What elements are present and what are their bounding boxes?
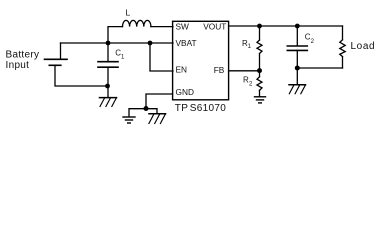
node EN junction <box>148 41 153 46</box>
wire VOUT rail <box>229 25 343 27</box>
svg-text:L: L <box>126 7 131 17</box>
svg-text:1: 1 <box>121 54 125 60</box>
IC U1 TPS61070 box <box>173 21 229 100</box>
svg-text:VOUT: VOUT <box>203 22 226 32</box>
wire FB <box>229 70 260 72</box>
node R1 top junction <box>257 24 262 29</box>
wire SW top rail left <box>108 27 123 43</box>
svg-text:FB: FB <box>214 65 225 75</box>
capacitor C2 <box>287 26 307 84</box>
svg-text:Battery: Battery <box>6 50 40 61</box>
wire EN connection <box>150 43 173 71</box>
svg-text:VBAT: VBAT <box>176 38 197 48</box>
node GND junction <box>144 106 149 111</box>
svg-text:GND: GND <box>176 87 194 97</box>
wire load bottom <box>297 67 342 69</box>
wire GND connection <box>146 94 173 109</box>
svg-text:TPS61070: TPS61070 <box>175 103 226 114</box>
svg-text:Input: Input <box>6 60 30 71</box>
wire GND to earth ground <box>129 109 146 117</box>
node C2 bottom junction <box>295 66 300 71</box>
ground chassis right of GND junction <box>149 114 166 124</box>
node FB junction <box>257 68 262 73</box>
node C1 top junction <box>106 41 111 46</box>
node C2 top junction <box>295 24 300 29</box>
svg-text:1: 1 <box>248 44 252 50</box>
wire SW rail right <box>151 26 173 28</box>
svg-text:EN: EN <box>176 64 188 74</box>
ground chassis under C1 <box>100 98 117 107</box>
inductor L <box>123 20 151 26</box>
load resistor <box>340 26 345 68</box>
capacitor C1 <box>98 43 118 97</box>
svg-text:SW: SW <box>176 22 190 32</box>
node battery/C1 bottom junction <box>105 84 110 89</box>
label R1 <box>242 39 252 50</box>
battery V1 <box>45 43 108 86</box>
label Battery Input <box>6 50 40 72</box>
label C1 <box>115 48 125 60</box>
wire GND to chassis ground <box>146 109 157 114</box>
resistor R1 <box>257 26 262 71</box>
ground chassis under C2 <box>289 85 306 94</box>
svg-text:2: 2 <box>249 81 253 87</box>
svg-text:Load: Load <box>351 41 376 52</box>
label R2 <box>243 75 253 87</box>
ground earth under R2 <box>255 97 266 103</box>
label C2 <box>305 33 315 45</box>
svg-text:2: 2 <box>311 39 315 45</box>
ground earth left <box>123 117 135 123</box>
wire VBAT rail <box>61 42 174 44</box>
resistor R2 <box>257 71 262 96</box>
